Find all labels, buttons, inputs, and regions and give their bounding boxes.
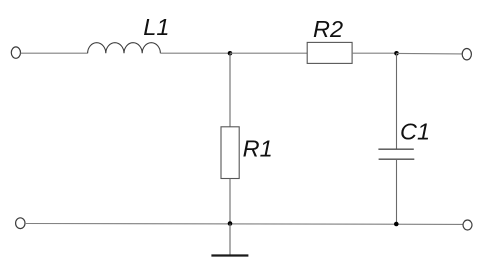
- node B junction dot: [394, 51, 399, 56]
- inductor L1: [88, 43, 161, 54]
- svg-text:L1: L1: [143, 14, 169, 40]
- resistor R1: [221, 127, 239, 179]
- terminal TR: [462, 49, 471, 60]
- wire node B to terminal TR: [397, 52, 463, 55]
- terminal BL: [16, 218, 25, 229]
- wire node B down to C1: [396, 53, 398, 149]
- wire node A down to R1: [229, 53, 231, 127]
- terminal BR: [463, 220, 472, 230]
- wire top-left: [21, 52, 88, 54]
- ground: [211, 254, 248, 256]
- node A junction dot: [228, 51, 233, 56]
- terminal TL: [11, 47, 20, 58]
- ground stem: [229, 224, 231, 255]
- wire C1 down to node D: [396, 159, 398, 223]
- capacitor C1: [378, 149, 414, 159]
- svg-text:R2: R2: [313, 16, 343, 42]
- resistor R2: [307, 42, 352, 63]
- wire R1 down to node C: [229, 179, 231, 224]
- wire node A to R2: [230, 52, 307, 54]
- node C junction dot: [228, 221, 233, 226]
- wire R2 to node B: [352, 52, 396, 54]
- node D junction dot: [394, 222, 399, 227]
- wire L1 to node A: [160, 52, 230, 54]
- svg-text:R1: R1: [243, 135, 273, 161]
- bottom wire: [25, 223, 463, 226]
- svg-text:C1: C1: [400, 119, 430, 145]
